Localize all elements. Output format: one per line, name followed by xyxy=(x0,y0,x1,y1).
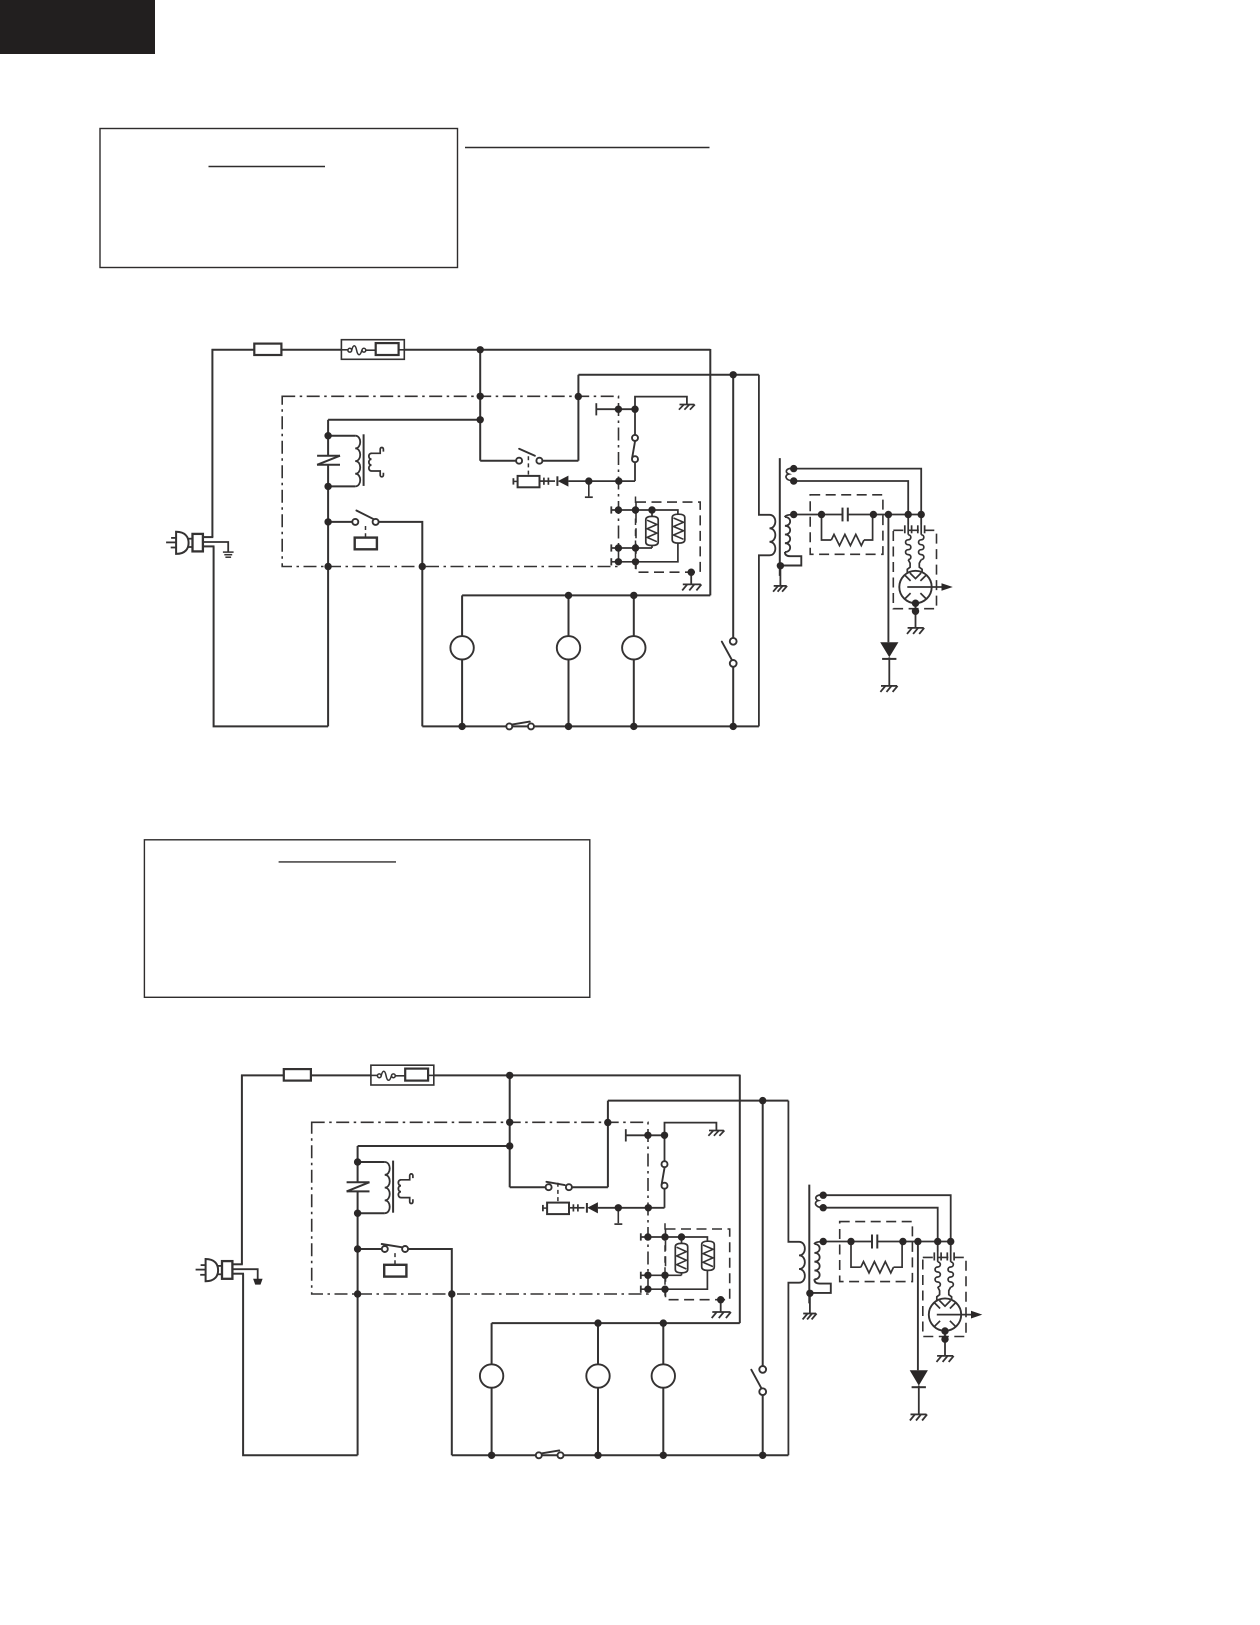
LVT fusible link diagonal #2 xyxy=(347,1182,370,1191)
node border crossing x578 #1 xyxy=(575,393,582,400)
thermal cutout lead-in #2 xyxy=(371,1074,378,1076)
HV diode ground #2 xyxy=(911,1413,927,1415)
interlock switch lever #1 xyxy=(519,449,535,456)
node heater row2 border #1 xyxy=(615,544,622,551)
HVT core #1 xyxy=(779,458,781,576)
node filament drop B #2 xyxy=(934,1238,941,1245)
callout line xyxy=(465,147,710,149)
node timer bottom #2 xyxy=(759,1452,766,1459)
note box 1 xyxy=(100,129,458,268)
monitor resistor terminal bar #2 xyxy=(542,1205,544,1211)
LVT secondary top lead #1 xyxy=(372,447,384,453)
wire relay row left #1 xyxy=(328,521,355,523)
node border crossing x328 #2 xyxy=(354,1290,361,1297)
heater element right #2 xyxy=(702,1241,715,1270)
thermal cutout inner block #2 xyxy=(405,1069,428,1081)
node filament b #2 xyxy=(820,1204,827,1211)
terminal stub vertical #2 xyxy=(617,1208,619,1223)
filament wire A #1 xyxy=(794,469,922,525)
wire bottom line #1 xyxy=(422,725,759,727)
wire top line right segment #2 xyxy=(434,1074,740,1076)
node HVT secondary ground #1 xyxy=(777,562,784,569)
filament wire B #2 xyxy=(823,1208,938,1252)
wire junction up to relay contact #1 xyxy=(634,459,636,481)
node bleed right #1 xyxy=(870,511,877,518)
heater element left #2 xyxy=(675,1243,687,1272)
plug lead bottom #2 xyxy=(232,1273,244,1275)
node border crossing x328 #1 xyxy=(324,563,331,570)
LVT secondary coil #1 xyxy=(369,453,372,471)
connector tick a #2 xyxy=(572,1204,574,1211)
wire interlock row right #1 xyxy=(539,460,578,462)
bleed resistor right leg #2 xyxy=(894,1242,903,1268)
LVT core #2 xyxy=(392,1161,394,1213)
HVT ground #2 xyxy=(803,1313,816,1315)
turntable motor circle #2 xyxy=(586,1364,609,1387)
thermal cutout lead-in #1 xyxy=(341,349,348,351)
node lamp3 top #2 xyxy=(660,1319,667,1326)
AC plug body #2 xyxy=(206,1259,219,1281)
power relay lever #2 xyxy=(382,1244,403,1247)
HV diode triangle #1 xyxy=(880,642,898,657)
bleed resistor left leg #2 xyxy=(851,1242,861,1268)
filament feed-through bars A #1 xyxy=(904,525,906,533)
node sensor junction #2 xyxy=(661,1132,668,1139)
magnetron dashed box #1 xyxy=(893,530,936,608)
monitor diode triangle #1 xyxy=(558,476,569,487)
wire timer vertical upper part #2 xyxy=(762,1101,764,1367)
node lamp2 top #1 xyxy=(565,592,572,599)
LVT core #1 xyxy=(363,434,365,486)
node LVT feed junction #2 xyxy=(506,1142,513,1149)
wire branch vertical x480 #2 xyxy=(509,1075,511,1187)
node HV bus left #1 xyxy=(790,511,797,518)
node border crossing sensor row #2 xyxy=(644,1132,651,1139)
filament feed-through bars B #1 xyxy=(917,525,919,533)
heater row2 wire #1 xyxy=(611,547,652,549)
wire left vertical from plug to top #2 xyxy=(241,1075,243,1265)
power relay contact left #1 xyxy=(352,519,358,525)
lamp switch contact right #2 xyxy=(558,1452,564,1458)
wire horizontal y375 #2 xyxy=(608,1100,789,1102)
fan motor circle #2 xyxy=(652,1364,675,1387)
node border crossing sensor row #1 xyxy=(615,406,622,413)
heater ground #2 xyxy=(712,1311,730,1313)
terminal stub bar #1 xyxy=(585,496,593,498)
HVT secondary top lead #2 xyxy=(814,1242,823,1245)
node lamp2 bottom #1 xyxy=(565,723,572,730)
wire LVT vertical lower #2 xyxy=(357,1191,359,1455)
HVT ground #1 xyxy=(774,585,787,587)
power relay contact right #1 xyxy=(373,519,379,525)
HVT core #2 xyxy=(808,1185,810,1304)
HV diode ground lead #2 xyxy=(918,1386,920,1415)
node top junction #1 xyxy=(477,346,484,353)
filament wire B #1 xyxy=(794,481,909,524)
magnetron neck #1 xyxy=(907,560,910,578)
LVT secondary bottom lead #1 xyxy=(372,471,384,477)
note box 2 xyxy=(144,840,589,998)
heater unit dashed box #1 xyxy=(636,502,700,572)
node heater row3 border #1 xyxy=(615,558,622,565)
LVT secondary bottom lead #2 xyxy=(401,1198,413,1204)
plug prong 2 #1 xyxy=(166,541,176,543)
magnetron output line #1 xyxy=(907,586,948,588)
node bleed left #2 xyxy=(847,1238,854,1245)
heater element right #1 xyxy=(672,514,685,543)
thermal cutout outer box #2 xyxy=(371,1065,434,1085)
power relay link #2 xyxy=(394,1253,396,1265)
magnetron ground #2 xyxy=(937,1355,953,1357)
RC filter dashed box #2 xyxy=(840,1222,913,1282)
node border crossing diode row #1 xyxy=(615,477,622,484)
wire transformer feed horizontal #1 xyxy=(328,419,480,421)
heater row2 terminal bar #2 xyxy=(640,1272,642,1279)
heater row3 wire #2 xyxy=(641,1270,708,1289)
oven cavity dash-dot enclosure #2 xyxy=(312,1122,648,1294)
heater ground stem #2 xyxy=(720,1300,722,1312)
wire big loop right vertical #1 xyxy=(709,349,711,595)
magnetron anode strokes #1 xyxy=(904,573,927,600)
connector tick a #1 xyxy=(543,478,545,485)
monitor resistor lead right #1 xyxy=(540,480,556,482)
thermal cutout contact a #1 xyxy=(348,348,352,352)
monitor diode cathode bar #2 xyxy=(586,1203,588,1213)
node stub junction #1 xyxy=(585,477,592,484)
plug lead top #1 xyxy=(203,536,213,538)
LVT fusible link lower bar #2 xyxy=(347,1190,370,1192)
sensor row terminal bar #2 xyxy=(625,1129,627,1141)
HV capacitor plate left #2 xyxy=(871,1235,873,1249)
monitor resistor lead left #2 xyxy=(543,1207,547,1209)
cavity ground small #2 xyxy=(709,1130,724,1132)
LVT primary bottom lead #2 xyxy=(358,1212,385,1214)
node border crossing x422 #2 xyxy=(448,1290,455,1297)
node filament a #1 xyxy=(790,465,797,472)
plug cord upper #1 xyxy=(188,538,192,540)
timer switch contact bottom #2 xyxy=(759,1388,766,1395)
node magnetron cathode #2 xyxy=(941,1327,948,1334)
bleed resistor right leg #1 xyxy=(864,515,873,541)
node HVT secondary ground #2 xyxy=(806,1290,813,1297)
thermal cutout outer box #1 xyxy=(341,340,404,360)
node heater row2 border #2 xyxy=(644,1272,651,1279)
plug cord upper #2 xyxy=(218,1265,222,1267)
node LVT primary bottom #2 xyxy=(354,1210,361,1217)
fuse F1 #1 xyxy=(254,344,281,355)
magnetron anode strokes #2 xyxy=(934,1301,957,1328)
earth ground bar 3 #1 xyxy=(225,556,231,558)
wire vertical x578 #2 xyxy=(607,1101,609,1188)
monitor resistor lead left #1 xyxy=(513,480,517,482)
node lamp3 bottom #1 xyxy=(630,723,637,730)
LVT fusible link upper bar #1 xyxy=(317,455,340,457)
node sensor junction #1 xyxy=(631,406,638,413)
monitor resistor terminal bar #1 xyxy=(512,478,514,484)
timer switch contact top #2 xyxy=(759,1366,766,1373)
monitor resistor box #1 xyxy=(518,476,540,487)
wire LVT vertical lower #1 xyxy=(327,465,329,727)
plug lead top #2 xyxy=(232,1263,242,1265)
HVT secondary bottom lead #2 xyxy=(811,1279,831,1293)
wire branch vertical x480 #1 xyxy=(479,350,481,461)
node filament drop A #2 xyxy=(947,1238,954,1245)
wire left vertical from plug to top #1 xyxy=(211,349,213,537)
node heater row3 link #1 xyxy=(632,558,639,565)
monitor diode cathode bar #1 xyxy=(556,476,558,486)
power relay contact right #2 xyxy=(402,1246,408,1252)
fuse F1 #2 xyxy=(284,1069,311,1081)
wire LVT vertical upper #2 xyxy=(357,1146,359,1182)
power relay coil box #1 xyxy=(355,538,377,550)
filament feed-through bars B #2 xyxy=(946,1252,948,1260)
header block xyxy=(0,0,155,54)
node magnetron cathode #1 xyxy=(912,600,919,607)
wire top line left segment #1 xyxy=(212,349,255,351)
HV diode ground lead #1 xyxy=(888,657,890,686)
plug lead bottom #1 xyxy=(203,545,215,547)
LVT fusible link upper bar #2 xyxy=(347,1181,370,1183)
plug prong 3 #2 xyxy=(200,1274,205,1276)
HV bus right #1 xyxy=(848,514,921,516)
node border crossing x422 #1 xyxy=(419,563,426,570)
oven lamp circle #1 xyxy=(450,636,473,659)
node heater row2 link #2 xyxy=(661,1272,668,1279)
wire timer vertical upper part #1 xyxy=(732,375,734,638)
monitor diode triangle #2 xyxy=(587,1202,598,1213)
wire lamp drop 2 #1 xyxy=(568,595,570,726)
plug prong 2 #2 xyxy=(196,1269,206,1271)
LVT primary bottom lead #1 xyxy=(328,485,355,487)
wire horizontal y375 #1 xyxy=(578,374,759,376)
node filament drop B #1 xyxy=(905,511,912,518)
plug terminal box #2 xyxy=(222,1261,232,1279)
magnetron output line #2 xyxy=(937,1314,978,1316)
HVT primary bottom lead #1 xyxy=(759,555,770,726)
heater element left lead bottom #1 xyxy=(651,546,653,549)
node border crossing x480 #1 xyxy=(477,393,484,400)
heater row3 wire #1 xyxy=(611,543,678,562)
wire top line left segment #2 xyxy=(241,1074,284,1076)
HV capacitor plate left #1 xyxy=(842,508,844,522)
HVT secondary coil #2 xyxy=(814,1244,819,1279)
interlock contact right #1 xyxy=(536,458,542,464)
HV diode cathode bar #2 xyxy=(912,1386,926,1388)
wire interlock row left #2 xyxy=(510,1186,549,1188)
thermal cutout contact b #2 xyxy=(392,1074,396,1078)
wire timer vertical lower part #1 xyxy=(732,667,734,727)
wire bottom left loop #2 xyxy=(243,1274,358,1456)
monitor resistor lead right #2 xyxy=(569,1207,585,1209)
filament choke B #2 xyxy=(948,1262,953,1287)
heater row2 terminal bar #1 xyxy=(610,544,612,551)
HVT ground stem #2 xyxy=(809,1293,811,1313)
plug terminal box #1 xyxy=(193,534,203,552)
HVT primary bottom lead #2 xyxy=(788,1283,799,1456)
node heater row3 border #2 xyxy=(644,1286,651,1293)
power relay link #1 xyxy=(365,526,367,538)
timer switch contact bottom #1 xyxy=(730,660,737,667)
node relay row tee #2 xyxy=(354,1245,361,1252)
schematic 2 (lower) xyxy=(196,1065,983,1459)
node lamp2 top #2 xyxy=(594,1319,601,1326)
wire lamp drop 1 #1 xyxy=(461,595,463,726)
sensor row wire #1 xyxy=(596,408,635,410)
monitor resistor box #2 xyxy=(547,1203,569,1215)
node top junction #2 xyxy=(506,1072,513,1079)
oven lamp circle #2 xyxy=(480,1364,503,1387)
node LVT feed junction #1 xyxy=(477,416,484,423)
safety switch wire up #2 xyxy=(665,1123,717,1162)
interlock contact left #2 xyxy=(546,1184,552,1190)
node HV bus left #2 xyxy=(820,1238,827,1245)
note box 1 underline xyxy=(209,166,326,168)
HV bus left #2 xyxy=(823,1241,872,1243)
thermal cutout link #2 xyxy=(395,1075,405,1077)
bleed resistor zigzag #1 xyxy=(831,534,864,545)
plug lead mid #2 xyxy=(232,1269,257,1279)
node filament a #2 xyxy=(820,1192,827,1199)
node LVT primary top #1 xyxy=(324,432,331,439)
HV capacitor plate right #1 xyxy=(847,508,849,522)
magnetron body #2 xyxy=(929,1298,961,1330)
LVT fusible link diagonal #1 xyxy=(317,456,340,465)
lamp switch lever #1 xyxy=(512,722,530,725)
power relay lever #1 xyxy=(356,511,374,520)
LVT primary top lead #1 xyxy=(328,435,355,437)
safety switch contact top #1 xyxy=(632,435,638,441)
wire interlock row right #2 xyxy=(569,1186,608,1188)
node heater row1 element #2 xyxy=(678,1233,685,1240)
plug prong 3 #1 xyxy=(171,547,176,549)
filament choke A #1 xyxy=(906,535,911,560)
node filament b #1 xyxy=(790,477,797,484)
node HV diode tap #2 xyxy=(914,1238,921,1245)
magnetron neck #2 xyxy=(937,1287,940,1305)
node timer top #2 xyxy=(759,1097,766,1104)
magnetron cathode stem #2 xyxy=(944,1331,946,1356)
LVT secondary top lead #2 xyxy=(401,1174,413,1180)
node HV diode tap #1 xyxy=(885,511,892,518)
node lamp2 bottom #2 xyxy=(594,1452,601,1459)
filament choke B #1 xyxy=(919,535,924,560)
node lamp1 bottom #2 xyxy=(488,1452,495,1459)
heater row1 terminal bar #1 xyxy=(610,506,612,513)
node border crossing x578 #2 xyxy=(604,1119,611,1126)
HVT filament winding #2 xyxy=(815,1195,823,1208)
thermal cutout contact b #1 xyxy=(362,348,366,352)
node heater row1 border #1 xyxy=(615,506,622,513)
node magnetron box crossing #2 xyxy=(941,1335,948,1342)
HV capacitor plate right #2 xyxy=(876,1235,878,1249)
wire bottom line #2 xyxy=(452,1454,789,1456)
wire relay row left #2 xyxy=(358,1248,385,1250)
HV diode cathode bar #1 xyxy=(882,658,896,660)
power relay contact left #2 xyxy=(382,1246,388,1252)
node lamp3 bottom #2 xyxy=(660,1452,667,1459)
cavity ground small #1 xyxy=(680,404,695,406)
thermal cutout contact a #2 xyxy=(377,1074,381,1078)
wire interlock row left #1 xyxy=(480,460,519,462)
HVT primary lead #2 xyxy=(788,1101,799,1242)
note box 2 underline xyxy=(279,861,396,863)
filament feed-through bars A #2 xyxy=(933,1252,935,1260)
bleed resistor left leg #1 xyxy=(822,515,832,541)
node heater row2 link #1 xyxy=(632,544,639,551)
node border crossing diode row #2 xyxy=(645,1204,652,1211)
wire top line right segment #1 xyxy=(404,349,710,351)
magnetron output arrow #1 xyxy=(942,583,953,591)
RC filter dashed box #1 xyxy=(810,495,883,555)
heater link vertical #1 xyxy=(635,497,637,573)
node heater row1 link #2 xyxy=(661,1233,668,1240)
wire top line mid segment #2 xyxy=(311,1074,371,1076)
interlock switch lever #2 xyxy=(546,1182,564,1185)
node heater row3 link #2 xyxy=(661,1286,668,1293)
safety switch wire up #1 xyxy=(635,397,687,435)
plug prong 1 #2 xyxy=(201,1264,206,1266)
LVT secondary coil #2 xyxy=(398,1180,401,1198)
heater element left lead top #2 xyxy=(681,1237,683,1243)
safety switch contact bottom #2 xyxy=(662,1183,668,1189)
HVT primary lead #1 xyxy=(759,375,770,515)
bleed resistor zigzag #2 xyxy=(861,1262,894,1273)
magnetron dashed box #2 xyxy=(923,1257,966,1336)
node stub junction #2 xyxy=(615,1204,622,1211)
thermal cutout squiggle #2 xyxy=(381,1071,391,1080)
thermal cutout lead-out #1 xyxy=(399,349,405,351)
timer switch lever #1 xyxy=(722,642,732,661)
power relay coil box #2 xyxy=(384,1265,406,1277)
interlock contact left #1 xyxy=(516,458,522,464)
wire diode to junction #1 xyxy=(568,480,635,482)
wire lamp drop 3 #1 xyxy=(633,595,635,726)
LVT fusible link lower bar #1 xyxy=(317,464,340,466)
interlock mechanical link #1 xyxy=(527,456,529,476)
wire lamp drop 1 #2 xyxy=(491,1323,493,1455)
HV diode triangle #2 xyxy=(910,1370,928,1385)
timer switch contact top #1 xyxy=(730,638,737,645)
HV bus left #1 xyxy=(794,514,843,516)
thermal cutout link #1 xyxy=(366,349,376,351)
thermal cutout inner block #1 xyxy=(376,343,399,355)
safety switch contact top #2 xyxy=(662,1161,668,1167)
wire lamp drop 3 #2 xyxy=(662,1323,664,1455)
wire relay row right #1 xyxy=(376,522,423,727)
heater element left lead bottom #2 xyxy=(681,1273,683,1276)
safety switch lever #1 xyxy=(632,441,635,458)
sensor row terminal bar #1 xyxy=(595,403,597,415)
wire vertical x578 #1 xyxy=(577,375,579,461)
node heater row1 element #1 xyxy=(648,506,655,513)
HV bus right #2 xyxy=(877,1241,950,1243)
wire relay row right #2 xyxy=(405,1249,452,1455)
node timer bottom #1 xyxy=(730,723,737,730)
LVT primary top lead #2 xyxy=(358,1161,385,1163)
heater row3 terminal bar #2 xyxy=(640,1286,642,1293)
wire big loop right vertical #2 xyxy=(739,1075,741,1324)
oven cavity dash-dot enclosure #1 xyxy=(282,396,618,566)
heater row3 terminal bar #1 xyxy=(610,558,612,565)
HVT ground stem #1 xyxy=(779,566,781,586)
wire transformer feed horizontal #2 xyxy=(358,1145,510,1147)
wire LVT vertical upper #1 xyxy=(327,420,329,456)
AC plug body #1 xyxy=(176,532,189,554)
HVT secondary coil #1 xyxy=(785,517,790,552)
interlock mechanical link #2 xyxy=(557,1183,559,1203)
magnetron output arrow #2 xyxy=(971,1311,982,1319)
wire junction up to relay contact #2 xyxy=(664,1186,666,1208)
